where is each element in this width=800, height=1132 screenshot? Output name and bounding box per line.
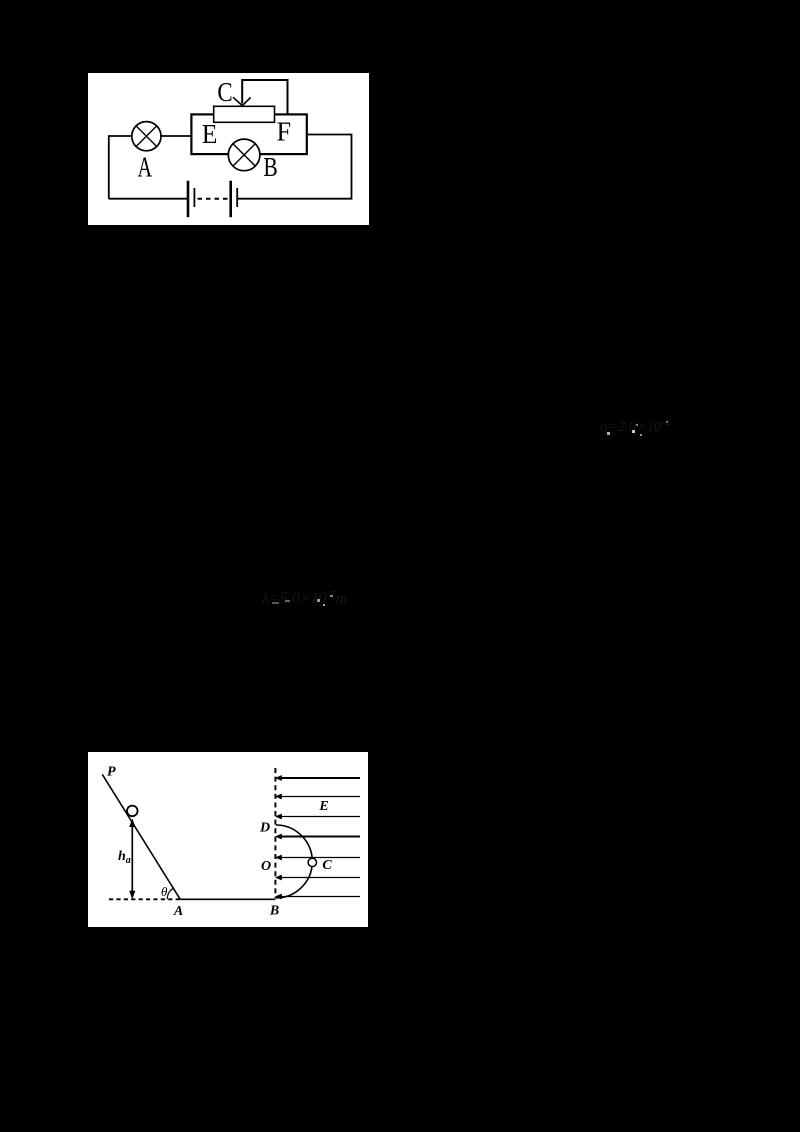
ball on incline	[127, 806, 138, 817]
circular track (right half)	[276, 825, 313, 898]
svg-text:D: D	[259, 821, 270, 836]
wire: bottom left to battery	[109, 198, 188, 200]
speck	[607, 432, 610, 435]
battery: long plate 1	[187, 181, 190, 218]
speck	[285, 600, 290, 602]
rheostat C body	[214, 106, 275, 122]
circuit figure panel	[88, 73, 369, 225]
svg-text:O: O	[261, 859, 271, 874]
wire: lamp A to E-F box	[161, 135, 191, 137]
lamp B	[228, 139, 260, 171]
physics figure panel	[88, 752, 368, 927]
field arrow 5	[275, 855, 360, 861]
wire: top loop with wiper arrow shaft	[242, 80, 287, 114]
speck	[632, 430, 635, 433]
speck	[636, 424, 638, 426]
field arrow 1	[275, 775, 360, 781]
svg-text:E: E	[318, 799, 328, 814]
battery: long plate 2	[229, 181, 232, 218]
speck	[323, 604, 325, 606]
ground line A-B	[180, 898, 275, 900]
height double arrow h_a	[129, 819, 135, 900]
wire: battery to bottom right and right vertical up	[237, 135, 351, 199]
speck	[272, 602, 279, 604]
parallel box E-F	[191, 114, 306, 154]
wire: lamp A left lead and left vertical	[109, 136, 132, 199]
speck	[330, 595, 333, 597]
svg-text:E: E	[202, 119, 218, 149]
svg-text:A: A	[138, 152, 153, 183]
field arrow 3	[275, 814, 360, 820]
svg-text:θ: θ	[161, 884, 168, 899]
dashed vertical line through D,O,B	[274, 768, 276, 898]
svg-text:ha: ha	[118, 849, 131, 866]
svg-text:C: C	[322, 858, 332, 873]
battery: short plate 2	[236, 188, 238, 207]
ball C on track	[308, 858, 316, 866]
speck	[317, 599, 320, 602]
field arrow 4	[275, 834, 360, 840]
speck	[640, 434, 642, 436]
field arrow 2	[275, 794, 360, 800]
svg-text:F: F	[277, 116, 292, 146]
speck	[666, 421, 668, 423]
field arrow 7	[275, 894, 360, 900]
angle arc theta	[167, 888, 173, 899]
svg-text:B: B	[263, 153, 277, 183]
svg-text:B: B	[269, 904, 279, 919]
faint equation 1	[600, 417, 671, 436]
dashed ground left of A	[109, 898, 180, 900]
svg-text:A: A	[173, 904, 183, 919]
battery: dashed middle	[198, 198, 229, 200]
svg-text:P: P	[107, 765, 116, 780]
field arrow 6	[275, 875, 360, 881]
incline P-A	[102, 774, 180, 899]
wiper arrow barbs	[233, 97, 251, 105]
lamp A	[132, 122, 161, 151]
battery: short plate 1	[193, 188, 195, 207]
faint equation 2	[262, 589, 347, 608]
svg-text:C: C	[217, 78, 232, 107]
